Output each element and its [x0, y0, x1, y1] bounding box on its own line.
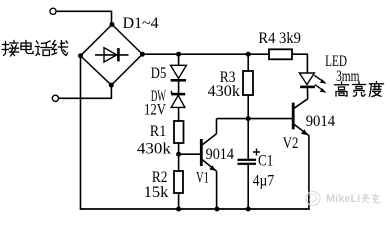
svg-text:12V: 12V	[144, 101, 166, 118]
node dot rail R2	[176, 207, 181, 212]
svg-text:R4 3k9: R4 3k9	[258, 30, 301, 47]
svg-text:C1: C1	[258, 153, 273, 170]
wire D5 to DW	[178, 80, 180, 94]
capacitor C1	[238, 159, 257, 165]
terminal T1 (top phone-line terminal)	[50, 8, 56, 14]
top rail (bridge right node to R4)	[142, 53, 269, 55]
话	[36, 41, 52, 56]
bridge inner diode symbol	[95, 48, 129, 62]
svg-text:430k: 430k	[208, 83, 240, 100]
LED D6	[299, 73, 315, 99]
svg-text:MikeLi: MikeLi	[326, 193, 360, 205]
wire C1 to bottom rail	[247, 165, 249, 209]
resistor R4	[269, 49, 292, 59]
wire R1 to R2	[178, 143, 180, 171]
wire top rail to D5	[178, 54, 180, 65]
label 接电话线 (hand-drawn CJK)	[2, 41, 68, 57]
svg-text:4µ7: 4µ7	[253, 172, 274, 189]
svg-text:R1: R1	[150, 123, 167, 140]
svg-text:9014: 9014	[206, 146, 234, 163]
svg-text:V1: V1	[196, 169, 209, 186]
watermark 麦克 (hand-drawn CJK, gray)	[362, 194, 380, 204]
node dot bridge bottom	[109, 83, 114, 88]
wire R4 to LED	[292, 54, 307, 73]
接	[2, 41, 19, 57]
LED arrow 2	[315, 85, 327, 93]
bottom rail	[80, 208, 310, 210]
watermark icon	[306, 192, 320, 206]
svg-text:D1~4: D1~4	[123, 15, 159, 32]
transistor V2	[293, 99, 309, 209]
电	[21, 41, 33, 54]
svg-text:9014: 9014	[306, 113, 335, 130]
resistor R1	[174, 121, 184, 143]
node dot rail C1	[246, 207, 251, 212]
node dot R1/R2 junction	[176, 152, 181, 157]
resistor R3	[243, 71, 253, 95]
svg-text:15k: 15k	[144, 184, 169, 201]
bridge rectifier D1~4 diamond	[81, 25, 143, 86]
transistor V1	[201, 119, 216, 209]
亮	[353, 82, 366, 96]
node dot bridge left	[78, 53, 83, 58]
plus sign C1	[253, 149, 260, 156]
wire R3 junction down to C1	[247, 119, 249, 159]
node dot D5 column top	[176, 52, 181, 57]
zener DW	[171, 91, 185, 108]
diode D5	[171, 65, 187, 80]
wire V1 collector to R3 bottom and V2 base	[217, 118, 293, 120]
wire bottom terminal to bridge bottom	[59, 85, 112, 98]
svg-text:430k: 430k	[137, 140, 171, 157]
resistor R2	[174, 171, 183, 193]
node dot R3 bottom	[246, 116, 251, 121]
node dot rail V1 emitter	[215, 207, 220, 212]
terminal T2 (bottom phone-line terminal)	[52, 95, 58, 101]
高	[335, 82, 349, 96]
label 高亮度 (hand-drawn CJK)	[335, 82, 384, 97]
node dot bridge top	[110, 22, 115, 27]
LED arrow 1	[314, 75, 326, 83]
left rail (bridge left node down to bottom rail)	[80, 56, 82, 209]
svg-text:3mm: 3mm	[336, 68, 360, 85]
wire R2 to bottom rail	[178, 193, 180, 209]
wire DW to R1	[178, 107, 180, 121]
线	[52, 41, 68, 56]
wire R3 bottom	[247, 95, 249, 119]
wire base V1	[179, 153, 201, 155]
wire top terminal to bridge top	[56, 11, 111, 24]
node dot R3 column top	[246, 52, 251, 57]
svg-text:V2: V2	[283, 135, 299, 152]
wire R3 top	[247, 54, 249, 71]
node dot bridge right	[140, 52, 145, 57]
svg-text:D5: D5	[151, 65, 167, 82]
度	[369, 82, 383, 97]
